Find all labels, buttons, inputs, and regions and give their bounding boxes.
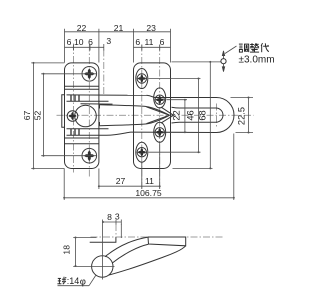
svg-text:6: 6 xyxy=(135,37,140,47)
svg-text:6: 6 xyxy=(88,37,93,47)
svg-text:φ: φ xyxy=(80,276,86,287)
svg-text:67: 67 xyxy=(22,111,32,121)
svg-text:11: 11 xyxy=(145,37,154,47)
svg-text:27: 27 xyxy=(116,176,126,186)
svg-text:52: 52 xyxy=(33,111,43,121)
svg-text:8: 8 xyxy=(107,212,112,222)
svg-text:6: 6 xyxy=(160,37,165,47)
svg-text:22.5: 22.5 xyxy=(236,107,246,125)
svg-text:6: 6 xyxy=(67,37,72,47)
svg-text:22: 22 xyxy=(171,110,181,120)
svg-text:46: 46 xyxy=(186,110,196,120)
svg-text:3: 3 xyxy=(115,212,120,222)
svg-text:68: 68 xyxy=(197,110,207,120)
svg-text:18: 18 xyxy=(62,245,72,255)
svg-text:±3.0mm: ±3.0mm xyxy=(239,55,275,66)
svg-text:106.75: 106.75 xyxy=(135,188,162,198)
svg-text:23: 23 xyxy=(146,23,156,33)
svg-text:10: 10 xyxy=(74,37,84,47)
svg-text:22: 22 xyxy=(77,23,87,33)
svg-text:11: 11 xyxy=(145,176,154,186)
svg-text::14: :14 xyxy=(67,276,80,286)
svg-text:21: 21 xyxy=(114,23,124,33)
svg-text:3: 3 xyxy=(106,36,111,46)
